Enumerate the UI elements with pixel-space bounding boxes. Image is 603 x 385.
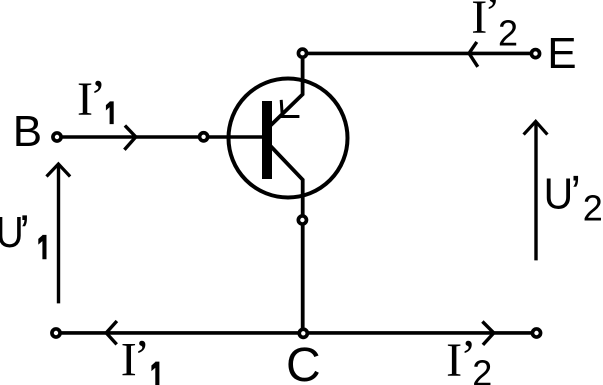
svg-text:2: 2 xyxy=(472,353,492,385)
terminal B open circle xyxy=(53,133,61,141)
svg-text:2: 2 xyxy=(498,12,518,53)
label U'2 xyxy=(544,167,603,229)
svg-text:2: 2 xyxy=(583,188,603,229)
emitter terminal node (top of transistor) xyxy=(298,49,306,57)
svg-text:U: U xyxy=(544,170,574,219)
svg-text:’: ’ xyxy=(19,206,30,259)
collector terminal node (bottom of transistor) xyxy=(298,216,306,224)
svg-text:B: B xyxy=(13,107,42,156)
wire: top wire from transistor emitter terminal to E terminal xyxy=(303,52,536,56)
wire: base wire from B terminal to transistor bar xyxy=(57,135,262,139)
transistor Q1 circle xyxy=(229,79,348,198)
svg-text:C: C xyxy=(286,339,321,385)
svg-text:’: ’ xyxy=(134,331,150,384)
wire: collector lead (diagonal from base bar + vertical down to C junction) xyxy=(270,146,303,334)
svg-text:E: E xyxy=(547,29,576,78)
node on base wire xyxy=(200,133,208,141)
terminal bottom-right open circle xyxy=(532,329,540,337)
label I'2 (top, on E wire) xyxy=(471,0,518,53)
node C junction circle xyxy=(299,329,307,337)
svg-text:’: ’ xyxy=(570,167,581,220)
wire: bottom wire from left terminal through C junction to right terminal xyxy=(56,331,537,335)
label I'2 (bottom wire) xyxy=(446,330,492,385)
label I'1 (top, on base wire) xyxy=(77,70,114,126)
wire: emitter lead (vertical + diagonal into base bar) xyxy=(270,53,303,126)
arrow on base wire (I'1 direction, pointing right) xyxy=(124,126,135,150)
transistor Q1 base bar xyxy=(262,101,272,179)
arrow on top wire (I'2 direction, pointing left) xyxy=(469,42,478,67)
label I'1 (bottom wire) xyxy=(121,331,160,385)
transistor Q1 emitter arrow (PNP, pointing into bar) xyxy=(281,100,299,117)
terminal bottom-left open circle xyxy=(52,329,60,337)
arrow on bottom-left wire (I'1, pointing left) xyxy=(106,321,117,344)
voltage arrow U'2 (right, pointing up) xyxy=(534,123,537,261)
label U'1 xyxy=(0,206,47,259)
svg-text:’: ’ xyxy=(90,70,106,123)
terminal E open circle xyxy=(531,50,539,58)
voltage arrow U'1 (left, pointing up) xyxy=(57,165,60,303)
arrow on bottom-right wire (I'2, pointing right) xyxy=(482,322,493,345)
